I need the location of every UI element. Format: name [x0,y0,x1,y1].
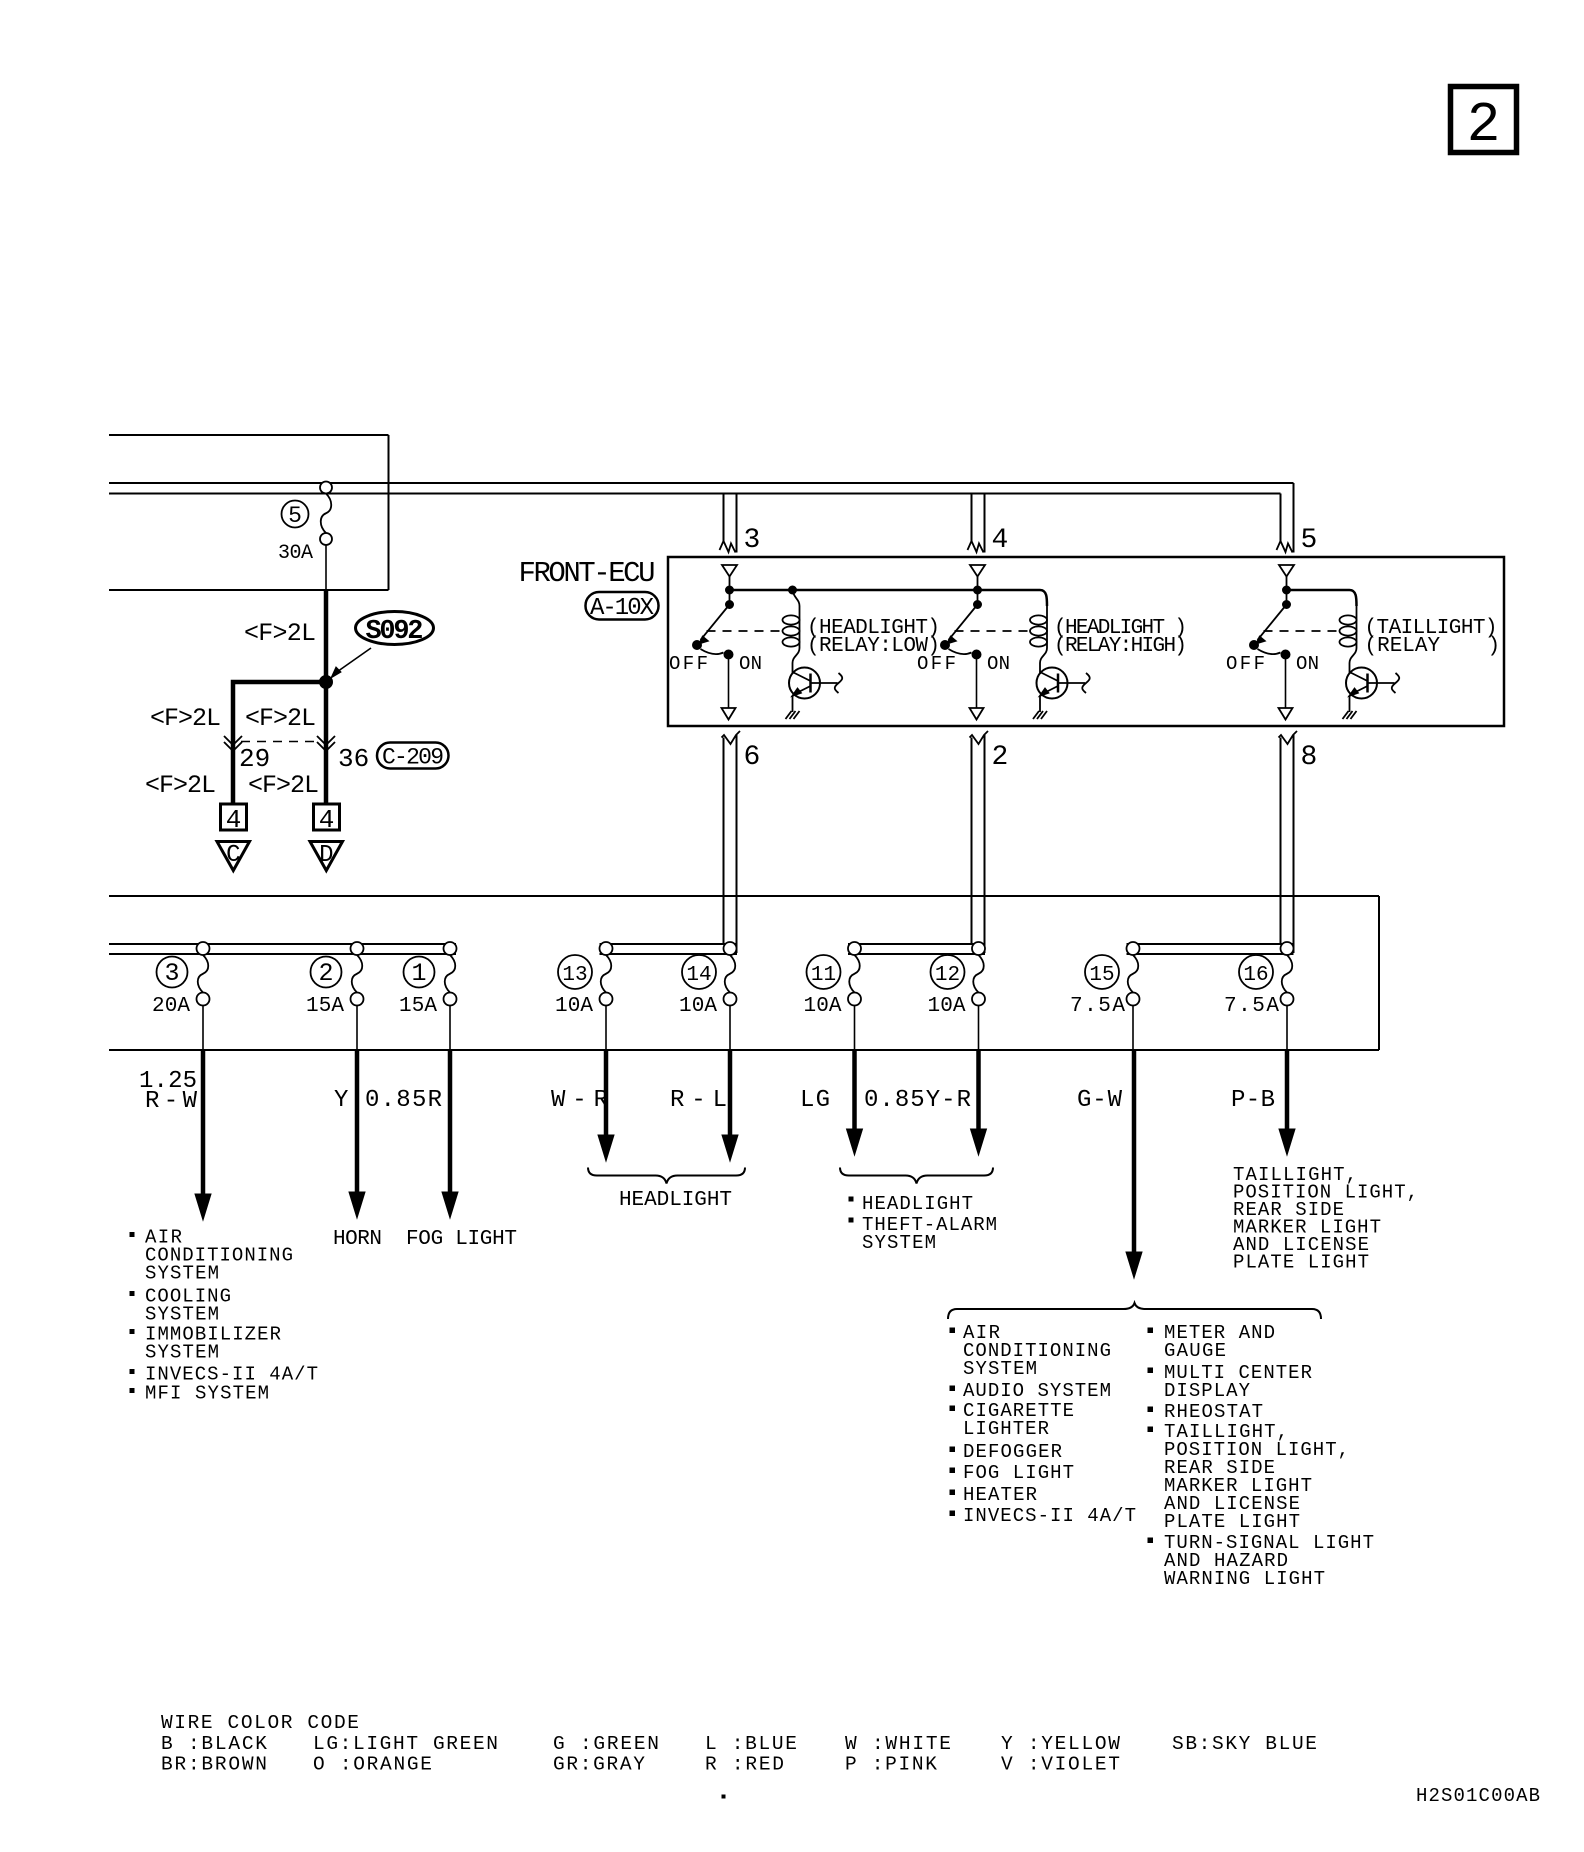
svg-text:10A: 10A [928,995,966,1018]
svg-text:2: 2 [318,959,333,988]
svg-text:ON: ON [987,653,1010,675]
terminal 4 (left) [221,804,247,835]
svg-text:6: 6 [744,742,761,773]
svg-text:5: 5 [1301,525,1318,556]
svg-text:C: C [226,842,240,869]
svg-text:SB:SKY BLUE: SB:SKY BLUE [1172,1733,1317,1755]
relay coil [783,586,800,663]
splice S092 [320,612,434,689]
svg-text:SYSTEM: SYSTEM [963,1358,1037,1380]
FRONT-ECU box A-10X [668,557,1504,726]
svg-text:14: 14 [686,964,711,987]
svg-text:15A: 15A [306,995,344,1018]
svg-text:4: 4 [319,805,335,835]
fuse bus segment (fuses 15,16) [1127,944,1294,954]
wire (relay feed) [730,589,1041,592]
wire to headlight/theft-alarm 2 (arrow) [971,1050,987,1155]
svg-text:2: 2 [992,742,1009,773]
fuse bus segment (fuses 3,2,1) [109,944,456,954]
wire to horn (arrow) [349,1050,365,1218]
connector C-209 pin 29 chevron [224,736,270,774]
svg-text:5: 5 [288,503,302,529]
connector boundary dashed line [241,741,318,743]
wire to headlight/theft-alarm 1 (arrow) [847,1050,863,1155]
svg-text:DEFOGGER: DEFOGGER [963,1441,1062,1463]
page number box 2 [1451,87,1517,158]
wire from fuse 5 (thick) [324,590,329,682]
ground (ECU internal) [1033,697,1047,719]
terminal 4 (right) [314,804,340,835]
svg-text:OFF: OFF [917,653,956,675]
svg-text:29: 29 [239,744,270,774]
svg-text:30A: 30A [278,542,313,565]
fuse 16 7.5A [1224,942,1294,1050]
wire to interior systems (arrow) [1126,1050,1142,1278]
svg-text:G :GREEN: G :GREEN [553,1733,659,1755]
wire drop to FRONT-ECU pin 3 [720,494,761,557]
relay output triangle [970,708,984,720]
svg-text:SYSTEM: SYSTEM [862,1232,936,1254]
svg-text:OFF: OFF [1226,653,1265,675]
relay coil [1030,606,1047,663]
svg-text:SYSTEM: SYSTEM [145,1304,219,1326]
svg-text:LG:LIGHT GREEN: LG:LIGHT GREEN [313,1733,498,1755]
fuse 2 15A [306,942,364,1050]
svg-text:ON: ON [1296,653,1319,675]
relay name (TAILLIGHT) [1365,617,1501,658]
svg-text:W-R: W-R [551,1087,608,1114]
svg-text:GR:GRAY: GR:GRAY [553,1754,645,1776]
svg-text:S092: S092 [366,617,424,647]
wire label 1.25 R-W [139,1068,198,1115]
wire to headlight right (arrow) [722,1050,738,1161]
connector A-10X label [586,592,659,622]
svg-text:4: 4 [226,805,242,835]
svg-text:11: 11 [811,964,836,987]
svg-text:FOG LIGHT: FOG LIGHT [406,1228,517,1251]
relay coil [1340,606,1357,663]
wire drop to FRONT-ECU pin 4 [968,494,1009,557]
svg-text:36: 36 [338,744,369,774]
fuse 11 10A [804,942,862,1050]
fuse 1 15A [399,942,457,1050]
wire from FRONT-ECU pin 2 to fuse [970,731,1009,953]
svg-text:P :PINK: P :PINK [845,1754,937,1776]
svg-text:2: 2 [1467,93,1501,157]
svg-text:12: 12 [935,964,960,987]
svg-text:10A: 10A [679,995,717,1018]
svg-text:D: D [319,842,333,869]
fuse 3 20A [152,942,210,1050]
svg-text:7.5A: 7.5A [1224,995,1279,1018]
mechanical link (dashed) [1264,630,1340,632]
svg-text:Y: Y [334,1087,348,1114]
brace headlight/theft-alarm [840,1168,993,1184]
relay switch [1250,590,1291,708]
svg-text:INVECS-II 4A/T: INVECS-II 4A/T [963,1505,1136,1527]
fuse 12 10A [928,942,986,1050]
svg-text:0.85Y-R: 0.85Y-R [864,1087,971,1114]
svg-text:1: 1 [411,959,426,988]
svg-text:O :ORANGE: O :ORANGE [313,1754,432,1776]
svg-text:P-B: P-B [1231,1087,1275,1114]
svg-text:L :BLUE: L :BLUE [705,1733,797,1755]
relay output triangle [1279,708,1293,720]
svg-text:RHEOSTAT: RHEOSTAT [1164,1401,1263,1423]
mechanical link (dashed) [955,630,1031,632]
wire from FRONT-ECU pin 8 to fuse [1279,731,1318,953]
svg-text:WARNING LIGHT: WARNING LIGHT [1164,1568,1325,1590]
relay input triangle [970,565,985,590]
transistor [1346,663,1399,699]
svg-text:G-W: G-W [1077,1087,1123,1114]
connector C-209 pin 36 chevron [317,736,369,774]
wire to headlight left (arrow) [598,1050,614,1161]
svg-text:WIRE COLOR CODE: WIRE COLOR CODE [161,1712,359,1734]
G-W load list column 1 [950,1322,1136,1527]
svg-text:15: 15 [1089,964,1114,987]
connector label C-209 [377,743,449,771]
relay output triangle [722,708,736,720]
svg-text:HEADLIGHT: HEADLIGHT [619,1189,732,1212]
svg-text:10A: 10A [804,995,842,1018]
reference dot [722,1795,725,1798]
node (switch common) [1283,586,1291,594]
fuse 13 10A [555,942,613,1050]
P-B load list [1233,1164,1418,1274]
svg-text:(RELAY: (RELAY [1365,635,1441,658]
ground (ECU internal) [1343,697,1357,719]
svg-text:<F>2L: <F>2L [245,704,316,733]
svg-text:R-W: R-W [145,1088,198,1115]
svg-text:H2S01C00AB: H2S01C00AB [1416,1785,1540,1807]
svg-text:13: 13 [562,964,587,987]
svg-text:ON: ON [739,653,762,675]
svg-text:FRONT-ECU: FRONT-ECU [519,557,656,590]
brace headlight [588,1168,745,1184]
node (switch common) [974,586,982,594]
transistor [1037,663,1090,699]
svg-text:OFF: OFF [669,653,708,675]
off-page connector C [217,842,250,871]
svg-text:15A: 15A [399,995,437,1018]
wire drop to FRONT-ECU pin 5 [1277,483,1318,556]
svg-text:C-209: C-209 [382,745,444,771]
wire color code legend [161,1712,1317,1776]
svg-text:B :BLACK: B :BLACK [161,1733,267,1755]
svg-text:BR:BROWN: BR:BROWN [161,1754,267,1776]
svg-text:0.85R: 0.85R [365,1087,442,1114]
relay input triangle [722,565,737,590]
node (switch common) [726,586,734,594]
fuse bus segment (fuses 13,14) [600,944,738,954]
svg-text:A-10X: A-10X [590,595,654,622]
fuse block (lower box) [109,896,1379,1050]
wire (relay feed) [1040,590,1047,606]
svg-text:<F>2L: <F>2L [150,704,221,733]
fuse 15 7.5A [1070,942,1140,1050]
fuse 3 load list [130,1227,318,1405]
brace G-W circuits [948,1303,1321,1319]
svg-text:8: 8 [1301,742,1318,773]
svg-text:FOG LIGHT: FOG LIGHT [963,1462,1074,1484]
relay switch [693,590,734,708]
wire to taillight circuit (arrow) [1279,1050,1295,1155]
fuse 14 10A [679,942,737,1050]
mechanical link (dashed) [707,630,783,632]
wire from FRONT-ECU pin 6 to fuse [722,731,761,953]
svg-text:GAUGE: GAUGE [1164,1340,1226,1362]
off-page connector D [310,842,343,871]
wire to air conditioning etc (arrow) [195,1050,211,1220]
wire (relay feed) [1287,590,1357,606]
fuse bus segment (fuses 11,12) [848,944,985,954]
ground (ECU internal) [786,697,800,719]
relay name (HEADLIGHT) [807,617,940,658]
svg-text:<F>2L: <F>2L [244,619,316,648]
junction block (upper box) [109,435,389,590]
relay input triangle [1279,565,1294,590]
svg-text:LG: LG [800,1087,830,1114]
wire to fog light (arrow) [442,1050,458,1218]
fuse 5 30A [278,482,332,591]
svg-text:20A: 20A [152,995,190,1018]
svg-text:16: 16 [1243,964,1268,987]
svg-text:7.5A: 7.5A [1070,995,1125,1018]
svg-text:SYSTEM: SYSTEM [145,1263,219,1285]
svg-text:AUDIO SYSTEM: AUDIO SYSTEM [963,1380,1111,1402]
svg-text:V :VIOLET: V :VIOLET [1001,1754,1120,1776]
bus wire (double line) from junction block to relay drops [109,483,1294,494]
svg-text:<F>2L: <F>2L [248,771,319,800]
svg-text:(RELAY:HIGH): (RELAY:HIGH) [1054,635,1187,658]
svg-text:10A: 10A [555,995,593,1018]
svg-text:Y :YELLOW: Y :YELLOW [1001,1733,1120,1755]
svg-text:W :WHITE: W :WHITE [845,1733,951,1755]
svg-text:HEATER: HEATER [963,1484,1037,1506]
svg-text:PLATE LIGHT: PLATE LIGHT [1233,1252,1369,1274]
svg-text:LIGHTER: LIGHTER [963,1418,1049,1440]
svg-text:3: 3 [744,525,761,556]
svg-text:<F>2L: <F>2L [145,771,216,800]
svg-text:R-L: R-L [670,1087,727,1114]
wire branch right [324,682,329,804]
svg-text:HORN: HORN [333,1228,382,1251]
svg-text:HEADLIGHT: HEADLIGHT [862,1193,973,1215]
svg-text:SYSTEM: SYSTEM [145,1342,219,1364]
svg-text:PLATE LIGHT: PLATE LIGHT [1164,1511,1300,1533]
svg-text:): ) [1488,635,1501,658]
svg-text:3: 3 [164,959,179,988]
headlight/theft-alarm list [849,1193,997,1254]
svg-text:4: 4 [992,525,1009,556]
svg-text:MFI SYSTEM: MFI SYSTEM [145,1383,269,1405]
relay switch [941,590,982,708]
relay name (HEADLIGHT ) [1054,617,1187,658]
wire branch left [233,682,326,804]
G-W load list column 2 [1148,1322,1374,1590]
transistor [789,663,842,699]
